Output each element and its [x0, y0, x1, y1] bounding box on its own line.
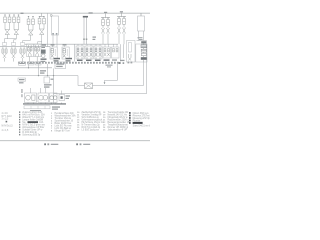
motor M03 [43, 95, 48, 100]
wire T4 drop [41, 35, 43, 44]
arrow ctrl [104, 80, 106, 82]
feeder box F3 [94, 46, 102, 59]
junction x38 [38, 75, 39, 76]
svg-text:Klingel 8V Tuer: Klingel 8V Tuer [55, 129, 71, 132]
junction x28 [28, 67, 29, 68]
label under B3 [54, 58, 61, 60]
motor M05 [53, 96, 57, 100]
feeder box F2 [85, 46, 93, 59]
motor bus [23, 103, 66, 105]
cabinet inner duct [128, 43, 131, 53]
label right MB1 [51, 79, 54, 80]
label spare [120, 60, 125, 61]
label under S2 [112, 59, 117, 60]
label stack top [138, 37, 143, 38]
label L1 [89, 12, 93, 13]
label under B4 [66, 58, 73, 60]
svg-text:8: 8 [51, 130, 53, 132]
wire drop x47 [47, 64, 49, 76]
wire M4 drop [29, 57, 31, 62]
label under F2 [86, 60, 92, 61]
wire inner riser [143, 62, 145, 86]
supply unit U7 [138, 16, 145, 31]
svg-text:Jalousieaktor 4f UP: Jalousieaktor 4f UP [108, 128, 128, 131]
rectifier box RB [136, 44, 147, 62]
wire stack [143, 43, 145, 44]
vertical label [21, 89, 22, 93]
wire spare 1 [120, 44, 122, 61]
wire N bus [0, 67, 52, 69]
label top-left [21, 13, 24, 14]
switch box S2 [112, 47, 120, 58]
aux box A1 [59, 95, 65, 101]
label L1 foot [93, 37, 97, 38]
wire return [54, 93, 147, 95]
boxed module M4 [27, 44, 34, 57]
wire main drop x53 [53, 69, 55, 104]
motor box G1 [25, 93, 37, 103]
wire relay feed [77, 76, 79, 86]
svg-text:Sicherung B16 3p: Sicherung B16 3p [22, 134, 41, 137]
relay K1 [85, 83, 93, 89]
feeder box F1 [76, 46, 84, 59]
wire riser mid [74, 44, 76, 61]
feeder cable U1 [52, 16, 59, 35]
wire T3 drop [22, 41, 24, 43]
wire tie T1-T2 [5, 38, 17, 40]
label under MB1 [44, 84, 52, 85]
wire spare 2 [123, 44, 125, 58]
junction x47 [47, 75, 48, 76]
breaker module M3 [20, 43, 24, 46]
wire stub m1 [30, 88, 32, 93]
wire M5 drop [36, 57, 38, 62]
terminal mark ctrl [119, 62, 121, 64]
svg-text:25: 25 [103, 129, 106, 131]
wire drop x28 [28, 64, 30, 68]
wire U7 left [138, 31, 140, 41]
svg-text:4 x 1,5: 4 x 1,5 [2, 130, 10, 132]
boxed module M5 [34, 44, 41, 57]
switch box S1 [103, 47, 111, 58]
wire T1 drop [4, 39, 6, 43]
terminal marks U1 [52, 33, 54, 35]
wire relay left [78, 85, 85, 87]
wire U7 bottom tie [137, 40, 147, 42]
motor M04 [50, 96, 54, 100]
cabinet module [128, 54, 130, 58]
wire stub m3 [45, 88, 47, 93]
label box LB1 [19, 62, 26, 65]
motor box G3 [50, 93, 58, 103]
wire U7 right [143, 31, 145, 41]
cable tray [24, 106, 50, 109]
wire T2 link [14, 39, 17, 41]
legend column F [129, 112, 131, 114]
control stack U8 [141, 41, 146, 43]
meter box MB1 [44, 77, 50, 83]
control box CB1 [55, 62, 66, 69]
starter B4 internals [63, 49, 65, 54]
wire PE bus [0, 75, 78, 77]
wire drop x38 [38, 64, 40, 76]
wire right riser [146, 41, 148, 63]
breaker module M2 [11, 43, 15, 46]
starter box B3 [50, 47, 57, 59]
svg-text:LS B16 1polig sw: LS B16 1polig sw [82, 129, 100, 131]
contact block [32, 95, 35, 100]
svg-text:17: 17 [77, 129, 80, 131]
label ctrl [106, 65, 113, 66]
junction x53 PE [53, 75, 54, 76]
label box LB1b [28, 62, 34, 65]
label box LB3 [18, 78, 26, 81]
meter cluster MC [42, 45, 47, 46]
terminal lug L1 [83, 16, 88, 18]
label right of A1 [66, 95, 71, 96]
transformer T1 [4, 15, 6, 17]
motor M02 [39, 95, 44, 100]
insulator marks L1 [83, 39, 85, 40]
motor box G2 [38, 93, 49, 103]
svg-text:3 x 2,5: 3 x 2,5 [2, 118, 10, 120]
wire return riser [146, 62, 148, 94]
wire ctrl horiz [105, 79, 118, 81]
incoming line L1 [83, 18, 85, 45]
starter B3 internals [51, 49, 53, 54]
label box LB1c [36, 62, 42, 65]
bus B1 [0, 46, 50, 48]
starter box B4 [62, 47, 69, 59]
cabinet outline [127, 41, 136, 63]
label under F3 [95, 60, 101, 61]
terminal tick U7 [140, 13, 142, 16]
transformer T2 [13, 15, 15, 17]
svg-text:Stand 04/21 rev b: Stand 04/21 rev b [133, 124, 150, 127]
label under S1 [104, 59, 110, 60]
bus B2 [25, 43, 118, 45]
drive group D2 [117, 16, 126, 18]
wire riser [47, 13, 49, 46]
wire U1 drops [52, 35, 54, 47]
label under F1 [77, 60, 83, 61]
terminal strip X1 [18, 62, 20, 64]
footer marks [44, 143, 46, 145]
transformer T4 [40, 15, 45, 17]
svg-text:NYM 5x1,5: NYM 5x1,5 [2, 125, 14, 127]
junction x53 bus [53, 103, 54, 104]
breaker module M1 [2, 43, 6, 46]
wire stub m4 [61, 91, 63, 95]
label B4 [63, 44, 67, 45]
motor M01 [26, 95, 31, 100]
transformer T3 [28, 16, 30, 19]
wire motor stubs [27, 103, 29, 104]
node A [50, 14, 52, 16]
drive group D1 [101, 17, 110, 19]
wire stub m2 [40, 88, 42, 93]
label under tray [30, 110, 41, 111]
wire relay right [93, 85, 144, 87]
legend column B [19, 111, 20, 113]
wire ctrl drop [117, 64, 119, 80]
label mid LB2 [40, 70, 46, 71]
label tray [52, 106, 60, 107]
label B3 [51, 44, 55, 45]
wire tie T3-T4 [23, 40, 31, 42]
